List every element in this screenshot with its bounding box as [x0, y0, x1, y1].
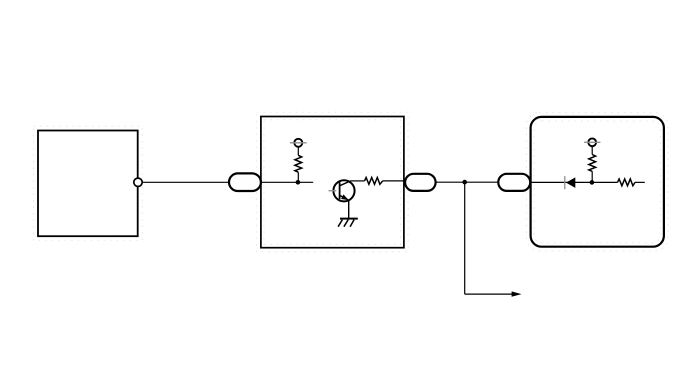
node A junction dot	[296, 180, 301, 185]
wire resistor R2 to port capsule P2	[383, 180, 406, 182]
wire collector to resistor R2	[351, 180, 365, 182]
wire bottom horizontal with arrow	[465, 291, 522, 296]
output terminal circle on left box	[134, 178, 142, 186]
wire emitter to ground	[348, 200, 350, 218]
port capsule P2	[405, 174, 436, 191]
wire from left box to node A	[140, 181, 313, 183]
resistor R2	[365, 178, 383, 185]
resistor R4	[618, 179, 636, 186]
wire terminal T1 to resistor R1	[297, 147, 299, 156]
selection dashes around left box	[34, 126, 143, 240]
resistor R1	[295, 155, 302, 172]
wire terminal T2 to resistor R3	[591, 146, 593, 155]
supply terminal T1	[290, 139, 307, 147]
node C junction dot	[590, 180, 595, 185]
ground	[338, 219, 358, 227]
selection dashes around right box	[526, 113, 668, 251]
wire through diode to resistor R4	[531, 181, 618, 183]
node B junction dot	[462, 180, 467, 185]
port capsule P1	[229, 173, 261, 191]
supply terminal T2	[584, 138, 600, 146]
transistor Q1	[329, 180, 355, 201]
selection dashes around middle box	[257, 112, 408, 252]
wire resistor R1 to node A	[297, 172, 299, 182]
resistor R3	[589, 155, 596, 172]
right box U3	[531, 117, 664, 247]
wire node B down	[464, 182, 466, 294]
wire resistor R3 to node C	[591, 171, 593, 182]
wire capsule P2 to capsule P3	[436, 181, 499, 183]
middle box U2	[261, 117, 404, 248]
left box U1	[38, 131, 138, 237]
port capsule P3	[498, 174, 530, 191]
diode D1	[565, 176, 576, 189]
wire resistor R4 stub	[635, 181, 645, 183]
